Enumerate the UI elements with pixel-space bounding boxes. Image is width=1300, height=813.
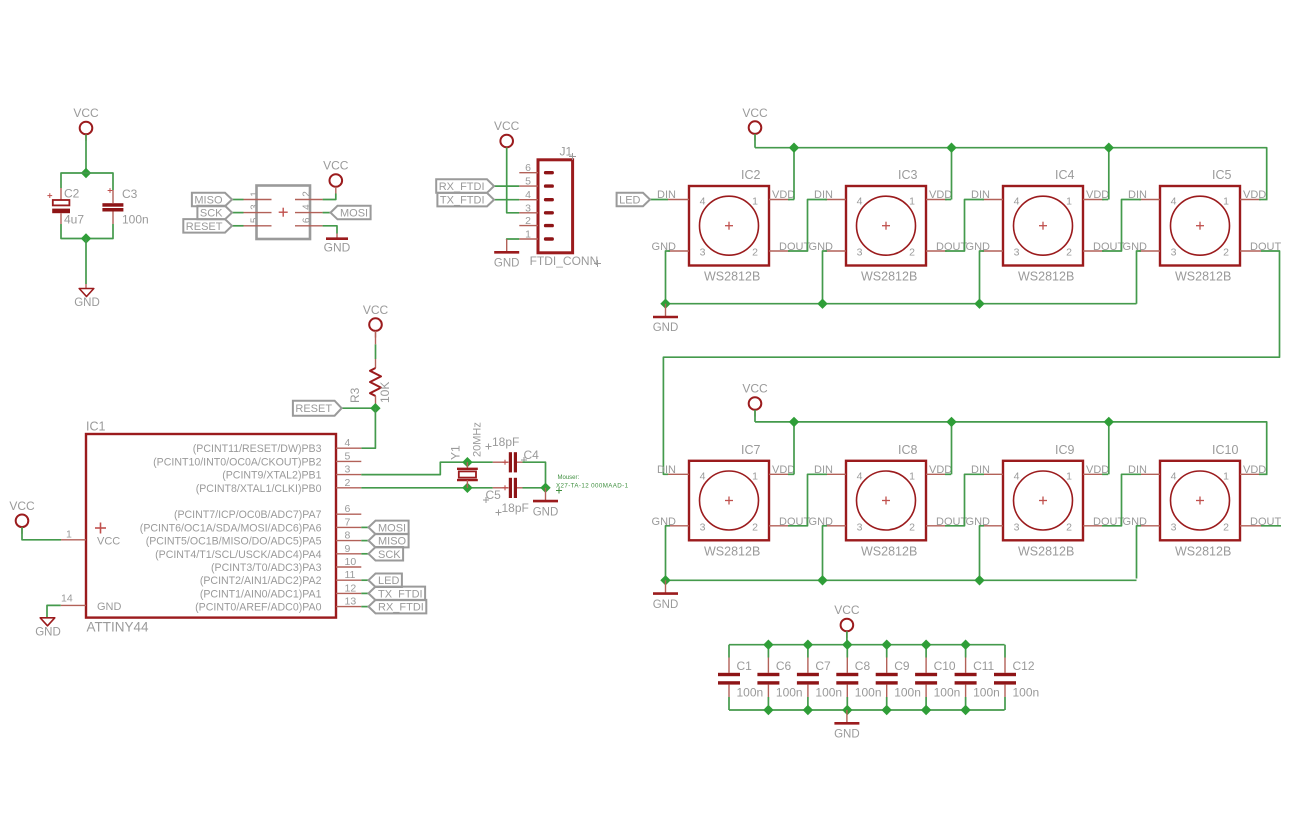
svg-text:IC1: IC1 [86,420,106,434]
junction [370,403,380,413]
svg-text:TX_FTDI: TX_FTDI [378,588,423,600]
svg-text:WS2812B: WS2812B [1018,544,1074,558]
flag RESET [183,219,232,233]
wire [980,526,985,579]
junction [921,640,932,650]
wire [507,239,520,240]
svg-text:RX_FTDI: RX_FTDI [439,181,485,193]
svg-text:100n: 100n [855,686,882,700]
wire [523,487,546,489]
ground [35,618,61,639]
svg-text:GND: GND [494,258,520,270]
wire [361,579,368,581]
svg-text:X27-TA-12 000MAAD-1: X27-TA-12 000MAAD-1 [556,483,629,490]
svg-text:C7: C7 [815,659,831,673]
wire [61,224,113,239]
flag MISO [369,534,409,548]
junction [882,705,892,715]
svg-text:12: 12 [345,582,357,594]
svg-text:1: 1 [1223,470,1229,482]
svg-text:1: 1 [1066,196,1072,208]
wire [788,200,827,252]
svg-text:2: 2 [752,247,758,259]
svg-text:(PCINT9/XTAL2)PB1: (PCINT9/XTAL2)PB1 [222,470,321,482]
junction [817,575,827,585]
svg-text:4: 4 [1171,196,1177,208]
svg-text:1: 1 [66,529,72,541]
junction [660,575,670,585]
ground [494,239,520,270]
wire GND rail cap bank [729,709,1005,711]
flag MOSI [369,521,409,535]
wire [945,199,951,201]
svg-text:1: 1 [752,196,758,208]
svg-text:VCC: VCC [742,382,768,396]
wire [1139,199,1160,201]
svg-text:WS2812B: WS2812B [704,270,760,284]
junction [882,640,892,650]
capacitor C3 [102,187,148,227]
svg-text:1: 1 [525,229,531,241]
svg-text:1: 1 [909,470,915,482]
svg-text:VCC: VCC [73,106,99,120]
capacitor C11 [955,645,1000,710]
power flag VCC (LED row 1) [742,106,768,141]
wire [668,473,689,475]
wire [926,473,947,475]
svg-text:4u7: 4u7 [64,213,84,227]
ground [653,580,679,611]
svg-text:3: 3 [857,521,863,533]
svg-text:5: 5 [250,217,261,223]
wire [945,473,951,475]
wire [926,199,947,201]
svg-text:100n: 100n [815,686,842,700]
wire [361,408,375,448]
junction [1104,417,1114,427]
wire [323,226,337,234]
wire [1102,199,1108,201]
svg-text:LED: LED [619,195,640,207]
IC IC7 WS2812B [652,443,811,559]
svg-text:IC2: IC2 [741,168,761,182]
svg-text:FTDI_CONN: FTDI_CONN [530,254,599,268]
junction [803,705,813,715]
wire [1083,250,1104,252]
svg-text:18pF: 18pF [492,435,519,449]
svg-text:GND: GND [533,506,559,518]
wire [945,474,984,526]
capacitor C2 [47,187,84,227]
junction [789,417,799,427]
wire [1240,199,1261,201]
svg-text:100n: 100n [1013,686,1040,700]
ground [533,488,559,519]
wire [823,526,828,579]
IC IC9 WS2812B [966,443,1125,559]
svg-text:WS2812B: WS2812B [704,544,760,558]
svg-text:IC4: IC4 [1055,168,1075,182]
svg-text:(PCINT2/AIN1/ADC2)PA2: (PCINT2/AIN1/ADC2)PA2 [200,575,322,587]
svg-text:(PCINT7/ICP/OC0B/ADC7)PA7: (PCINT7/ICP/OC0B/ADC7)PA7 [174,509,322,521]
svg-text:MISO: MISO [378,536,407,548]
junction [921,705,932,715]
wire [846,631,848,644]
wire [793,422,795,474]
svg-text:MOSI: MOSI [378,522,406,534]
wire [1102,474,1141,526]
junction [960,705,970,715]
wire [754,410,756,422]
IC IC10 WS2812B [1123,443,1282,559]
svg-text:3: 3 [1014,247,1020,259]
wire [668,250,689,252]
wire [1240,250,1261,252]
wire [85,135,87,174]
wire [323,212,331,214]
svg-text:MISO: MISO [194,195,223,207]
flag TX_FTDI [437,193,494,207]
svg-text:IC10: IC10 [1212,443,1238,457]
svg-text:3: 3 [1171,521,1177,533]
wire VCC rail cap bank [729,644,1005,646]
svg-text:4: 4 [345,437,351,449]
wire [1083,525,1104,527]
svg-text:13: 13 [345,596,357,608]
svg-text:(PCINT6/OC1A/SDA/MOSI/ADC6)PA6: (PCINT6/OC1A/SDA/MOSI/ADC6)PA6 [140,522,322,534]
junction [842,640,852,650]
junction [817,299,827,309]
wire [361,462,493,474]
svg-text:11: 11 [345,569,356,581]
svg-text:RESET: RESET [295,403,332,415]
svg-text:IC3: IC3 [898,168,918,182]
svg-text:GND: GND [97,601,122,613]
svg-text:3: 3 [1014,521,1020,533]
svg-text:IC5: IC5 [1212,168,1232,182]
wire [769,199,790,201]
svg-text:C6: C6 [776,659,792,673]
IC IC2 WS2812B [652,168,811,284]
svg-text:GND: GND [324,241,351,255]
svg-text:100n: 100n [894,686,921,700]
junction [763,705,773,715]
svg-text:3: 3 [345,464,351,476]
wire [788,199,794,201]
svg-text:2: 2 [752,521,758,533]
wire [361,606,368,608]
svg-text:SCK: SCK [200,208,223,220]
wire [1102,200,1141,252]
junction [789,143,799,153]
wire [1083,199,1104,201]
svg-text:100n: 100n [776,686,803,700]
svg-text:(PCINT10/INT0/OC0A/CKOUT)PB2: (PCINT10/INT0/OC0A/CKOUT)PB2 [153,456,321,468]
capacitor C12 [994,645,1039,710]
connector J1 FTDI_CONN [519,145,601,268]
svg-text:4: 4 [302,204,313,210]
svg-text:LED: LED [378,575,399,587]
wire [982,473,1003,475]
svg-text:4: 4 [857,470,863,482]
wire [47,605,61,617]
svg-text:RESET: RESET [186,221,223,233]
svg-text:20MHz: 20MHz [472,422,484,457]
capacitor C1 [718,645,763,710]
svg-text:6: 6 [525,162,531,174]
wire [1240,473,1261,475]
ground [74,289,100,310]
wire [793,148,795,200]
svg-text:8: 8 [345,530,351,542]
wire [825,250,846,252]
wire [825,525,846,527]
junction [462,457,472,467]
svg-text:VCC: VCC [834,603,860,617]
capacitor C10 [915,645,960,710]
junction [842,705,852,715]
svg-text:3: 3 [700,521,706,533]
svg-text:(PCINT11/RESET/DW)PB3: (PCINT11/RESET/DW)PB3 [193,443,322,455]
wire [668,525,689,527]
wire [982,250,1003,252]
wire [980,251,985,304]
svg-text:C2: C2 [64,187,80,201]
svg-text:VCC: VCC [97,536,120,548]
wire [769,250,790,252]
svg-text:100n: 100n [934,686,961,700]
wire [1139,250,1160,252]
wire [982,199,1003,201]
svg-text:4: 4 [1171,470,1177,482]
svg-text:RX_FTDI: RX_FTDI [378,602,424,614]
wire [788,473,794,475]
wire [1108,422,1110,474]
svg-text:WS2812B: WS2812B [1018,270,1074,284]
svg-text:C10: C10 [934,659,956,673]
capacitor C6 [757,645,802,710]
svg-text:4: 4 [1014,470,1020,482]
junction [540,483,550,493]
resistor R3 [348,331,392,408]
wire [1137,526,1142,579]
capacitor C8 [836,645,881,710]
ground [324,234,351,255]
wire [361,526,368,528]
flag RX_FTDI [436,179,494,193]
svg-text:IC7: IC7 [741,443,761,457]
svg-text:Y1: Y1 [449,445,463,460]
svg-text:4: 4 [1014,196,1020,208]
capacitor C9 [876,645,921,710]
capacitor C4 [486,435,540,472]
svg-text:C3: C3 [122,187,138,201]
svg-text:2: 2 [909,521,915,533]
wire [523,462,546,488]
svg-text:9: 9 [345,543,351,555]
wire [85,239,87,289]
svg-text:WS2812B: WS2812B [861,270,917,284]
power flag VCC (LED row 2) [742,382,768,417]
svg-text:SCK: SCK [378,549,401,561]
power flag VCC (ISP) [323,159,349,194]
svg-text:GND: GND [653,322,679,334]
wire [769,473,790,475]
flag LED [369,574,402,588]
svg-text:IC8: IC8 [898,443,918,457]
wire [494,199,519,201]
svg-text:VCC: VCC [494,119,520,133]
wire [61,173,113,190]
svg-text:1: 1 [1223,196,1229,208]
svg-text:7: 7 [345,516,351,528]
wire [1108,148,1110,200]
wire VCC rail row 1 [755,148,1267,200]
svg-text:3: 3 [250,204,261,210]
flag SCK [369,547,404,561]
capacitor C7 [797,645,842,710]
svg-text:2: 2 [909,247,915,259]
wire [232,212,244,214]
wire [361,592,368,594]
flag RX_FTDI [369,600,427,614]
wire DOUT IC10 [1261,525,1281,527]
junction [960,640,970,650]
svg-text:100n: 100n [122,213,149,227]
svg-text:14: 14 [61,593,73,605]
junction [763,640,773,650]
wire [361,540,368,542]
svg-text:R3: R3 [348,387,362,403]
junction [974,575,984,585]
IC IC8 WS2812B [809,443,968,559]
ground [653,304,679,335]
svg-text:C1: C1 [737,659,753,673]
flag RESET [293,401,342,416]
IC IC4 WS2812B [966,168,1125,284]
svg-text:C9: C9 [894,659,910,673]
power flag VCC (IC1) [9,499,35,534]
svg-text:2: 2 [345,477,351,489]
wire [650,199,668,201]
wire [232,199,244,201]
power flag VCC (cap bank) [834,603,860,638]
wire [666,251,671,304]
wire [926,525,947,527]
wire [769,525,790,527]
junction [946,143,956,153]
wire [494,185,519,187]
wire [232,225,244,227]
junction [946,417,956,427]
svg-text:1: 1 [250,191,261,197]
wire [1137,251,1142,304]
svg-text:10: 10 [345,556,357,568]
svg-text:C11: C11 [973,659,994,673]
note Mouser part number [556,475,629,494]
svg-text:6: 6 [345,503,351,515]
junction [81,168,91,178]
wire [825,473,846,475]
power flag VCC (C2/C3 rail) [73,106,99,141]
svg-text:WS2812B: WS2812B [1175,544,1231,558]
wire [375,344,377,359]
wire [1139,525,1160,527]
svg-text:(PCINT3/T0/ADC3)PA3: (PCINT3/T0/ADC3)PA3 [211,562,322,574]
svg-text:3: 3 [1171,247,1177,259]
svg-text:18pF: 18pF [502,501,529,515]
flag TX_FTDI [369,587,426,601]
svg-text:2: 2 [1066,247,1072,259]
wire [323,194,336,200]
wire [951,422,953,474]
svg-text:VCC: VCC [742,106,768,120]
svg-text:2: 2 [1066,521,1072,533]
svg-text:WS2812B: WS2812B [1175,270,1231,284]
junction [462,483,472,493]
svg-text:GND: GND [834,729,860,741]
svg-text:TX_FTDI: TX_FTDI [440,195,485,207]
svg-text:4: 4 [525,189,531,201]
svg-text:1: 1 [909,196,915,208]
IC IC5 WS2812B [1123,168,1282,284]
wire [788,474,827,526]
svg-text:5: 5 [345,450,351,462]
power flag VCC (FTDI) [494,119,520,154]
svg-text:100n: 100n [973,686,1000,700]
wire [1139,473,1160,475]
wire [668,199,689,201]
svg-text:3: 3 [857,247,863,259]
svg-text:(PCINT5/OC1B/MISO/DO/ADC5)PA5: (PCINT5/OC1B/MISO/DO/ADC5)PA5 [146,536,322,548]
svg-text:100n: 100n [737,686,764,700]
ISP header connector [244,186,323,240]
wire [825,199,846,201]
svg-text:VCC: VCC [363,303,389,317]
svg-text:WS2812B: WS2812B [861,544,917,558]
svg-text:10K: 10K [378,382,392,403]
svg-text:4: 4 [857,196,863,208]
svg-text:(PCINT8/XTAL1/CLKI)PB0: (PCINT8/XTAL1/CLKI)PB0 [196,483,322,495]
flag LED [617,193,650,207]
wire DOUT IC5 to DIN IC7 [663,251,1279,474]
wire [1259,473,1268,475]
svg-text:GND: GND [74,297,100,309]
wire GND rail row 1 [666,303,1137,305]
svg-text:2: 2 [1223,247,1229,259]
wire [22,527,61,540]
svg-text:(PCINT0/AREF/ADC0)PA0: (PCINT0/AREF/ADC0)PA0 [195,602,321,614]
wire [982,525,1003,527]
svg-text:ATTINY44: ATTINY44 [87,620,150,635]
wire [754,134,756,148]
IC U1 ATTINY44 [61,420,362,635]
wire [1102,473,1108,475]
svg-text:2: 2 [302,191,313,197]
wire [1259,199,1268,201]
wire [1240,525,1261,527]
svg-text:1: 1 [1066,470,1072,482]
svg-text:2: 2 [525,215,531,227]
wire [926,250,947,252]
wire VCC rail row 2 [755,422,1267,474]
svg-text:(PCINT4/T1/SCL/USCK/ADC4)PA4: (PCINT4/T1/SCL/USCK/ADC4)PA4 [155,549,322,561]
svg-text:3: 3 [700,247,706,259]
wire [666,526,671,579]
svg-text:(PCINT1/AIN0/ADC1)PA1: (PCINT1/AIN0/ADC1)PA1 [200,588,322,600]
wire [507,148,520,213]
flag MOSI [331,206,371,220]
